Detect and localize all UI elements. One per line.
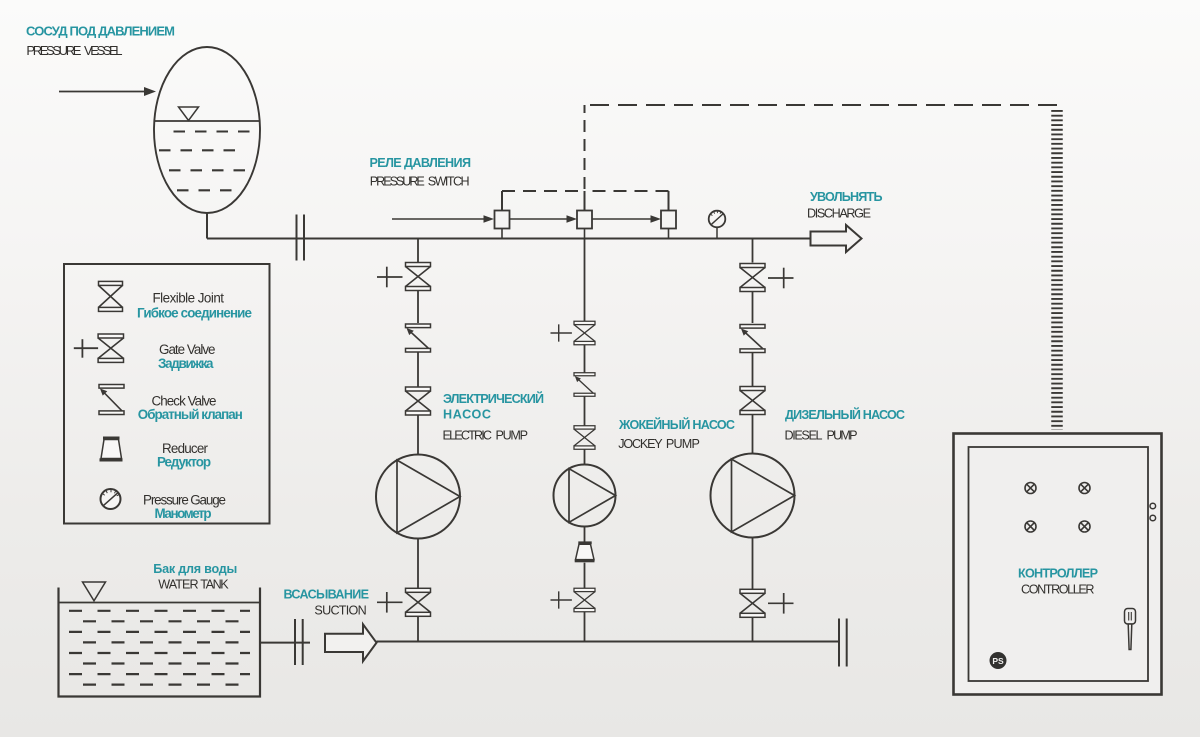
svg-text:WATER: WATER (158, 578, 198, 592)
svg-text:JOCKEY: JOCKEY (618, 437, 663, 451)
flexible joint on main pipe (297, 215, 305, 261)
svg-text:Обратный клапан: Обратный клапан (138, 407, 243, 422)
svg-text:ELECTRIC: ELECTRIC (443, 429, 493, 443)
svg-text:SUCTION: SUCTION (314, 604, 366, 618)
bottom suction manifold (377, 641, 840, 643)
water tank (59, 582, 261, 697)
svg-text:CONTROLLER: CONTROLLER (1021, 583, 1095, 597)
svg-text:Задвижка: Задвижка (158, 356, 214, 371)
wire (417, 616, 419, 641)
svg-text:Гибкое соединение: Гибкое соединение (137, 306, 252, 321)
wire (417, 352, 419, 387)
svg-text:ВСАСЫВАНИЕ: ВСАСЫВАНИЕ (284, 588, 370, 602)
legend check valve symbol (99, 385, 124, 415)
inlet arrow to pressure vessel (59, 87, 156, 96)
svg-text:VESSEL: VESSEL (84, 43, 123, 58)
gate valve (electric, below check valve) (406, 387, 431, 415)
check valve (jockey) (574, 373, 595, 397)
svg-text:КОНТРОЛЛЕР: КОНТРОЛЛЕР (1018, 567, 1098, 581)
svg-text:PS: PS (992, 656, 1004, 666)
wire (584, 563, 586, 590)
svg-text:РЕЛЕ ДАВЛЕНИЯ: РЕЛЕ ДАВЛЕНИЯ (370, 156, 472, 170)
wire: diesel branch from main line (752, 239, 754, 263)
jockey pump (554, 465, 616, 527)
svg-text:PUMP: PUMP (496, 429, 529, 443)
gate valve handle (550, 324, 571, 341)
door handle (1125, 609, 1136, 650)
gate valve (jockey discharge side) (574, 321, 595, 345)
svg-text:DIESEL: DIESEL (785, 429, 823, 443)
gate valve (diesel discharge side) (740, 264, 765, 292)
tank water dashes (69, 611, 250, 685)
electric pump (376, 455, 460, 539)
wire (752, 415, 754, 454)
reducer on jockey line (575, 541, 595, 562)
wire (417, 291, 419, 324)
wire (417, 415, 419, 455)
svg-text:Манометр: Манометр (155, 506, 212, 521)
gate valve handle (550, 591, 571, 608)
svg-text:Редуктор: Редуктор (157, 455, 211, 470)
discharge hollow arrow (811, 225, 862, 252)
hinge dots (1150, 503, 1156, 521)
svg-text:ЖОКЕЙНЫЙ НАСОС: ЖОКЕЙНЫЙ НАСОС (618, 417, 735, 432)
svg-text:УВОЛЬНЯТЬ: УВОЛЬНЯТЬ (810, 190, 883, 204)
svg-text:PUMP: PUMP (827, 429, 858, 443)
manifold end cap (839, 619, 847, 667)
pressure gauge on main line (709, 211, 726, 239)
gate valve handle (377, 592, 403, 613)
svg-text:TANK: TANK (200, 578, 229, 592)
vessel water dashes (159, 132, 251, 191)
svg-text:PRESSURE: PRESSURE (370, 175, 425, 189)
hatched cable to controller (1051, 110, 1063, 430)
svg-text:ДИЗЕЛЬНЫЙ НАСОС: ДИЗЕЛЬНЫЙ НАСОС (785, 407, 905, 422)
dashed control wiring (502, 105, 1057, 211)
pressure switch boxes (495, 211, 677, 229)
wire (584, 345, 586, 374)
wire (584, 612, 586, 642)
svg-text:DISCHARGE: DISCHARGE (807, 207, 871, 221)
wire (417, 539, 419, 589)
svg-text:СОСУД ПОД ДАВЛЕНИЕМ: СОСУД ПОД ДАВЛЕНИЕМ (26, 24, 175, 39)
pressure switch feeder line with arrows (392, 215, 661, 223)
gate valve (electric suction side) (406, 588, 431, 616)
check valve (diesel) (740, 325, 765, 353)
legend flexible joint symbol (99, 281, 123, 311)
diesel pump (711, 454, 795, 538)
PS badge (990, 652, 1007, 669)
svg-text:Бак для воды: Бак для воды (153, 562, 237, 576)
svg-text:SWITCH: SWITCH (428, 175, 470, 189)
tank outlet line (260, 642, 310, 644)
gate valve handle (right) (768, 268, 794, 289)
wire (752, 617, 754, 641)
wire (752, 292, 754, 324)
flexible joint on suction (295, 619, 303, 665)
legend gate valve symbol (74, 334, 124, 362)
pressure vessel (154, 47, 260, 213)
gate valve (electric discharge side) (406, 263, 431, 291)
legend pressure gauge symbol (101, 489, 121, 509)
gate valve (jockey, below check valve) (574, 426, 595, 450)
wire (752, 538, 754, 590)
wire (584, 527, 586, 542)
wire (584, 449, 586, 464)
wire: jockey branch from pressure switch through main line (584, 239, 586, 323)
gate valve handle (right) (768, 593, 794, 614)
vessel stem (206, 213, 208, 239)
svg-text:ЭЛЕКТРИЧЕСКИЙ: ЭЛЕКТРИЧЕСКИЙ (443, 391, 544, 406)
stubs from boxes to main line (502, 229, 669, 239)
suction hollow arrow (325, 624, 377, 661)
wire (584, 396, 586, 426)
check valve (electric) (406, 324, 431, 352)
svg-text:Gate Valve: Gate Valve (159, 342, 216, 357)
legend reducer symbol (100, 437, 123, 462)
gate valve handle (377, 267, 403, 288)
wire: electric branch from main line (417, 239, 419, 263)
indicator lights (1025, 483, 1090, 533)
wire (752, 353, 754, 387)
svg-text:PRESSURE: PRESSURE (26, 43, 81, 58)
main discharge pipe (207, 238, 810, 240)
gate valve (jockey suction side) (574, 588, 595, 612)
svg-text:Flexible Joint: Flexible Joint (153, 291, 225, 306)
gate valve (diesel suction side) (740, 589, 765, 617)
svg-text:PUMP: PUMP (666, 437, 700, 451)
gate valve (diesel, below check valve) (740, 387, 765, 415)
svg-text:НАСОС: НАСОС (443, 408, 491, 422)
